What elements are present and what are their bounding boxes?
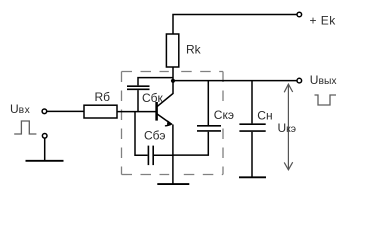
terminal + Ek <box>297 12 302 17</box>
wire top rail to +Ek <box>173 15 297 35</box>
svg-text:Сбэ: Сбэ <box>144 129 166 143</box>
capacitor Сн plates <box>239 124 265 131</box>
wire output rail <box>173 80 297 82</box>
terminal Uвх bottom <box>42 134 47 139</box>
wire Rk bottom to collector node <box>172 67 174 81</box>
transistor VT base bar <box>155 102 158 121</box>
wire input terminal to Rб <box>47 110 84 112</box>
wire Скэ bottom plate to emitter <box>173 132 208 155</box>
svg-text:Скэ: Скэ <box>214 108 234 122</box>
label Uкэ <box>278 121 297 135</box>
wire output rail down to Сн <box>251 81 253 124</box>
capacitor Скэ plates <box>197 126 221 131</box>
svg-text:Сбк: Сбк <box>142 91 164 105</box>
ground Сн <box>239 176 266 178</box>
transistor VT collector lead <box>157 81 173 107</box>
wire Сбк bottom plate to base <box>137 90 139 112</box>
label Rk <box>186 43 202 57</box>
wire base down to Сбэ <box>135 112 148 156</box>
label Сбк <box>142 91 164 105</box>
label Скэ <box>213 108 238 123</box>
ground emitter <box>157 183 189 185</box>
output pulse symbol <box>315 95 337 105</box>
wire emitter down to ground <box>172 125 174 184</box>
wire Сбк top plate to collector <box>138 78 173 86</box>
label Сн <box>257 109 272 123</box>
capacitor Сбк plates <box>127 86 150 89</box>
label + Ek <box>310 14 337 28</box>
svg-text:+ Ek: + Ek <box>310 14 337 28</box>
terminal Uвых <box>297 78 302 83</box>
wire Сн bottom plate to ground <box>251 132 253 177</box>
wire Сбэ right plate to emitter <box>154 154 173 156</box>
wire Rб to base <box>117 111 156 113</box>
transistor VT emitter lead with arrow <box>157 114 173 126</box>
label Rб <box>95 90 111 104</box>
svg-text:Uкэ: Uкэ <box>278 121 297 135</box>
svg-text:Uвх: Uвх <box>10 102 31 116</box>
svg-text:Сн: Сн <box>257 109 272 123</box>
node collector junction <box>171 79 175 83</box>
label Uвых <box>310 73 338 87</box>
svg-text:Uвых: Uвых <box>310 73 338 87</box>
svg-text:Rб: Rб <box>95 90 111 104</box>
terminal Uвх top <box>42 109 47 114</box>
resistor Rб <box>84 105 117 118</box>
ground input <box>26 160 64 162</box>
arrow Uкэ <box>284 84 293 170</box>
wire bottom terminal to ground <box>44 138 46 160</box>
wire output rail down to Скэ <box>207 81 209 125</box>
svg-text:Rk: Rk <box>186 43 202 57</box>
input pulse symbol <box>14 121 36 134</box>
dashed transistor-model box <box>122 72 224 175</box>
label Сбэ <box>144 129 166 143</box>
label Uвх <box>10 102 31 116</box>
capacitor Сбэ plates <box>148 146 153 166</box>
resistor Rk <box>166 34 178 67</box>
